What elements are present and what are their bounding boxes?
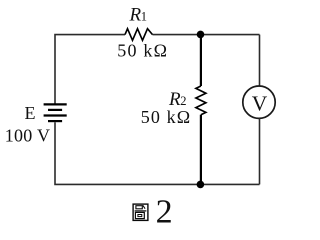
voltmeter V (circle) (243, 86, 275, 118)
caption: character 圖 (drawn) (133, 204, 148, 220)
wire: bottom (bottom-right corner to bottom-left corner to battery bottom) (55, 122, 260, 184)
node: bottom junction dot (197, 181, 205, 189)
svg-text:E: E (25, 103, 36, 123)
svg-text:100 V: 100 V (5, 126, 51, 146)
resistor R2 (vertical zigzag) (196, 86, 206, 115)
wire: top (R1 right lead to top-right corner) (153, 34, 260, 36)
wire: middle branch upper (top dot to R2) (200, 35, 202, 87)
svg-text:50 kΩ: 50 kΩ (117, 41, 168, 61)
svg-text:50 kΩ: 50 kΩ (141, 107, 191, 127)
svg-text:V: V (252, 92, 268, 116)
wire: right branch upper (top-right corner to voltmeter) (259, 35, 261, 86)
battery E (two cells) (44, 104, 67, 121)
node: top junction dot (197, 31, 205, 39)
wire: middle branch lower (R2 to bottom dot) (200, 115, 202, 185)
svg-text:2: 2 (156, 193, 173, 230)
svg-text:R1: R1 (129, 4, 148, 25)
wire: left branch (battery top to top-left corner to R1 left lead) (55, 35, 125, 104)
wire: right branch lower (voltmeter to bottom-right corner) (259, 118, 261, 184)
resistor R1 (zigzag) (125, 29, 153, 41)
